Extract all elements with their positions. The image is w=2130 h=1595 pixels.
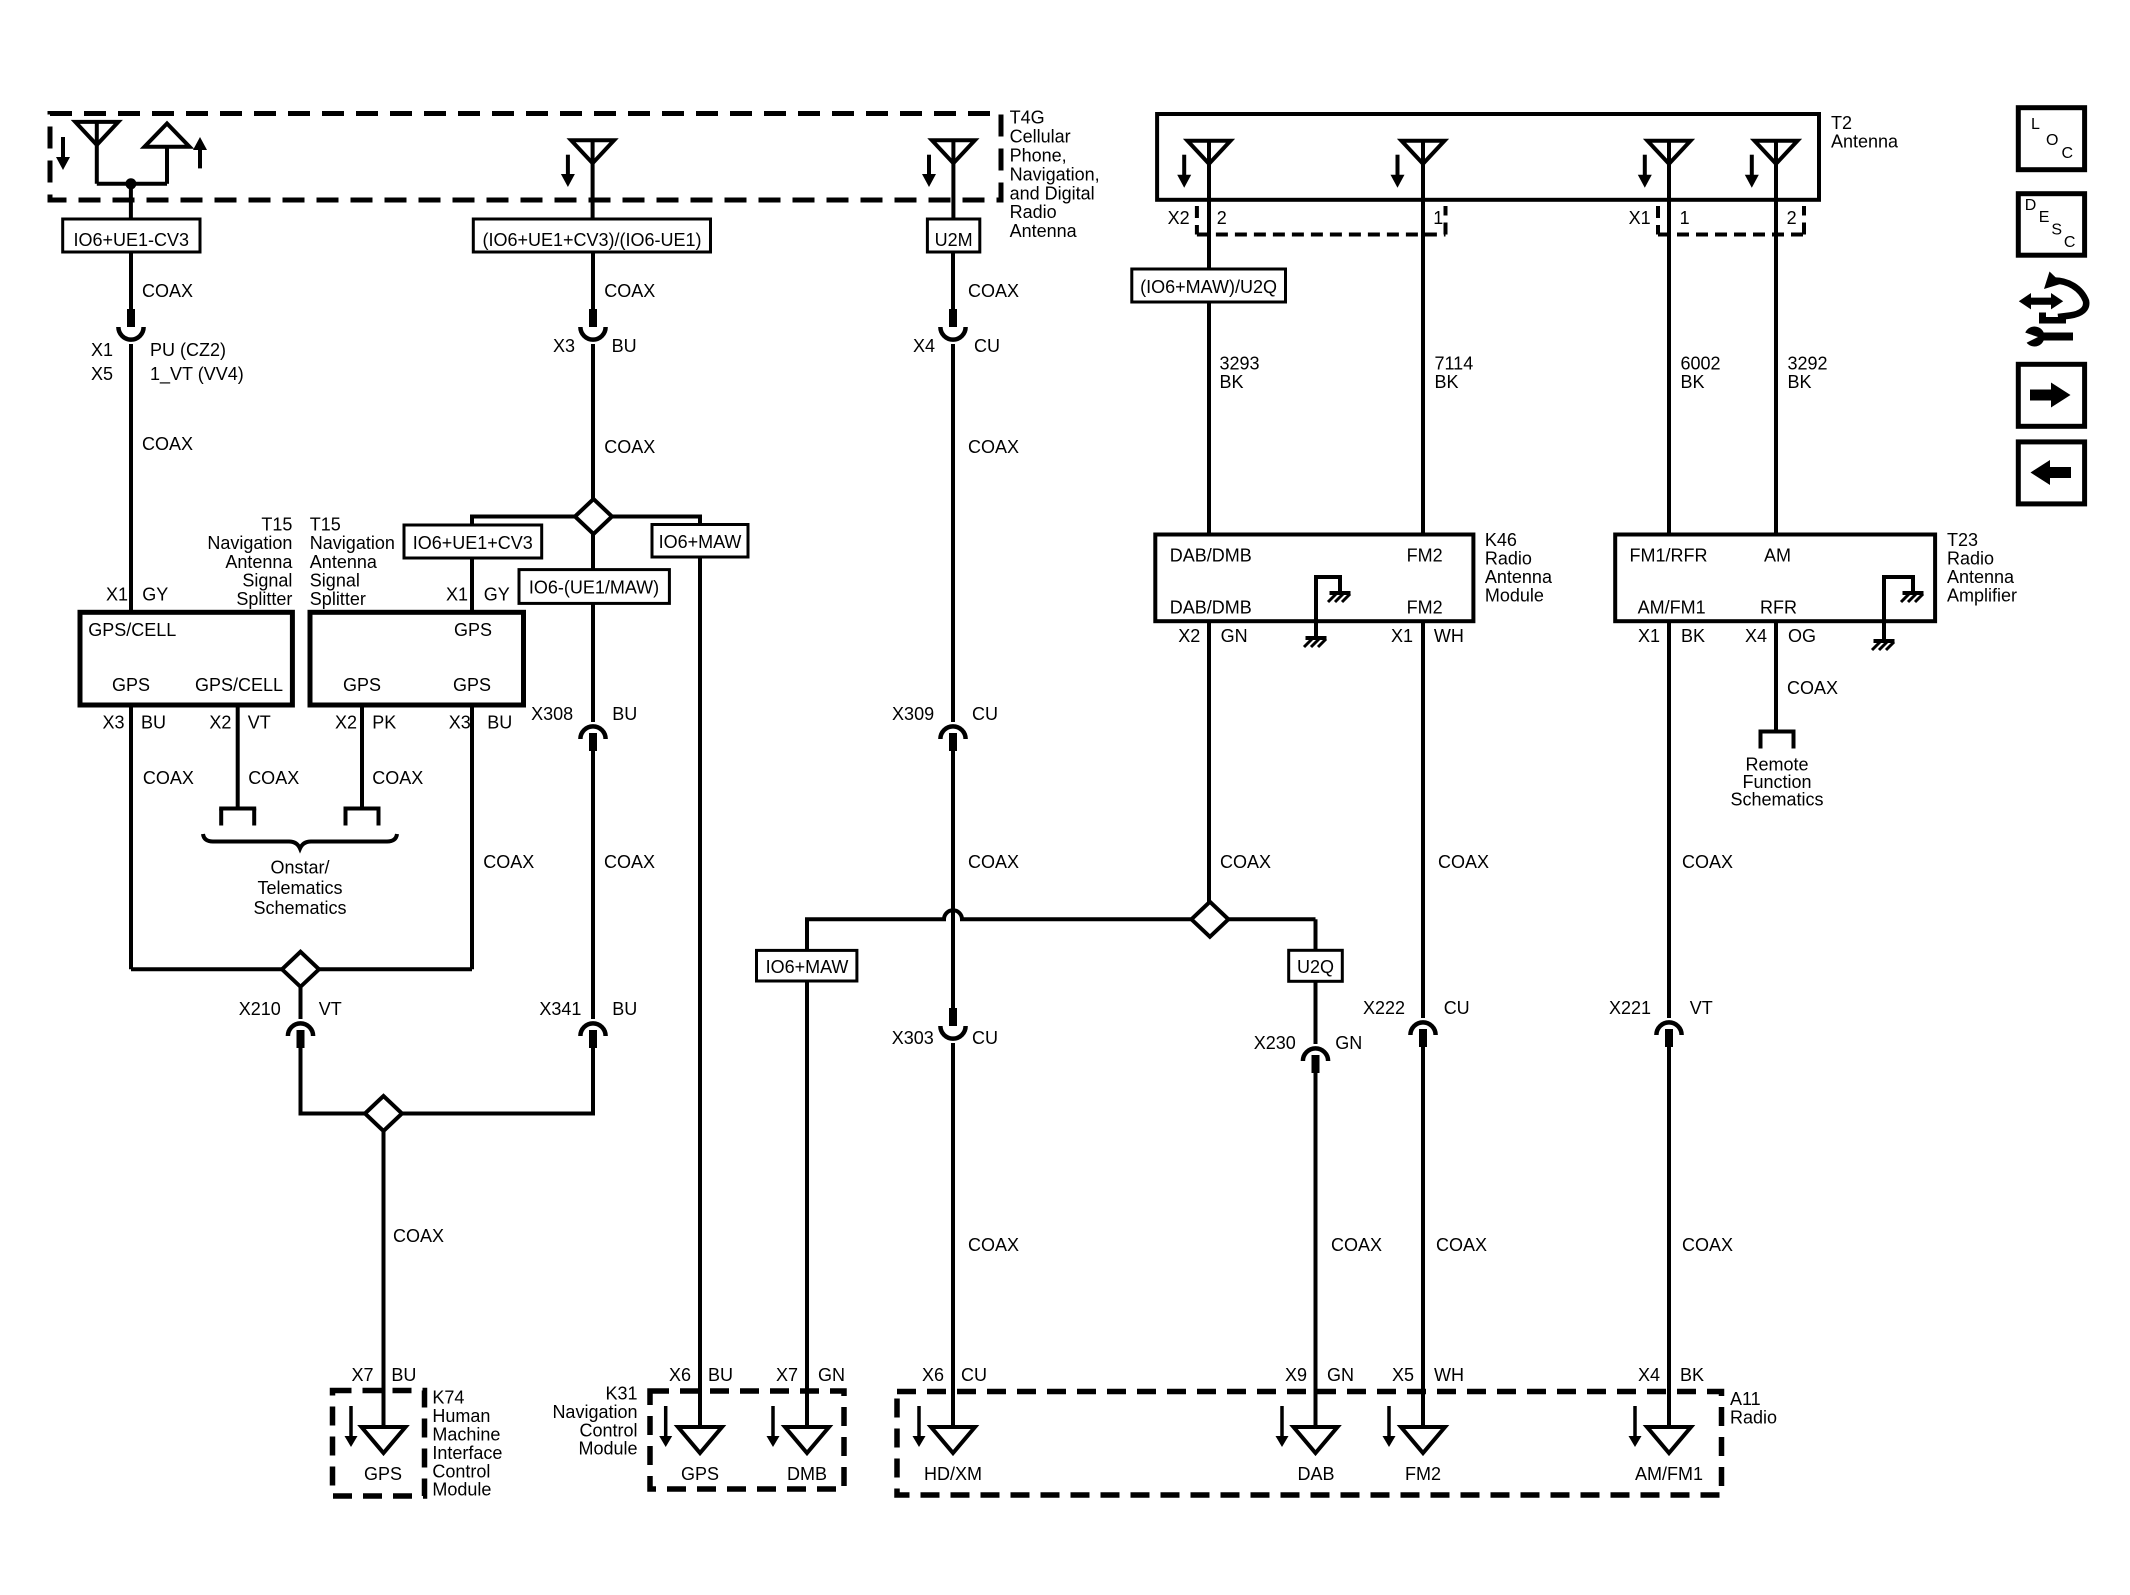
svg-text:Phone,: Phone,: [1010, 146, 1067, 166]
arrow into A11 DAB: [1280, 1406, 1284, 1438]
component box K46 Radio Antenna Module: [1155, 535, 1473, 622]
svg-text:T15: T15: [310, 514, 341, 534]
svg-text:Splitter: Splitter: [236, 589, 292, 609]
svg-text:PK: PK: [372, 713, 396, 733]
svg-text:6002: 6002: [1681, 354, 1721, 374]
svg-text:X2: X2: [1168, 208, 1190, 228]
svg-text:GN: GN: [818, 1365, 845, 1385]
wire from IO6-(UE1/MAW) label to connector X308: [591, 603, 595, 722]
svg-text:DAB: DAB: [1297, 1464, 1334, 1484]
svg-text:FM2: FM2: [1407, 546, 1443, 566]
wire from D4 right down to U2Q label: [1314, 919, 1318, 950]
svg-text:OG: OG: [1788, 626, 1816, 646]
svg-text:COAX: COAX: [604, 852, 655, 872]
svg-text:BU: BU: [391, 1365, 416, 1385]
component box T23 Radio Antenna Amplifier: [1615, 535, 1935, 622]
wire from IO6+MAW lower label down to K31 DMB: [805, 981, 809, 1453]
svg-text:Signal: Signal: [242, 571, 292, 591]
wire COAX from X308 to X341: [591, 751, 595, 1019]
wire COAX from X230 down to A11 DAB: [1314, 1073, 1318, 1453]
wire COAX T23 X1 BK down to connector X221: [1667, 621, 1671, 1018]
arrow receive signal at A1: [61, 137, 65, 160]
harness option label IO6+MAW (lower): [757, 950, 857, 981]
svg-text:AM/FM1: AM/FM1: [1638, 598, 1706, 618]
wire from diamond D1 left to IO6+UE1+CV3 branch: [472, 517, 576, 527]
svg-text:Module: Module: [1485, 586, 1544, 606]
svg-text:C: C: [2064, 234, 2076, 251]
svg-text:X222: X222: [1363, 998, 1405, 1018]
wire COAX from connector X3 to splice diamond: [591, 344, 595, 500]
svg-text:X6: X6: [922, 1365, 944, 1385]
connector boundary dashes X1 of T2: [1658, 206, 1804, 235]
icon button previous arrow: [2018, 442, 2084, 504]
svg-text:BU: BU: [141, 713, 166, 733]
svg-text:2: 2: [1217, 208, 1227, 228]
svg-text:VT: VT: [248, 713, 271, 733]
wire bus from D4 left with crossover hop to DMB branch: [1228, 917, 1315, 921]
svg-text:GPS: GPS: [112, 675, 150, 695]
svg-text:COAX: COAX: [248, 768, 299, 788]
wire COAX from U2M label to connector X4: [951, 252, 955, 309]
svg-text:X7: X7: [776, 1365, 798, 1385]
svg-text:X210: X210: [239, 999, 281, 1019]
svg-text:X3: X3: [449, 713, 471, 733]
svg-text:U2M: U2M: [935, 230, 973, 250]
svg-text:COAX: COAX: [1331, 1235, 1382, 1255]
svg-text:GN: GN: [1327, 1365, 1354, 1385]
wire COAX from connector X1/X5 down to T15 splitter 1: [129, 344, 133, 612]
svg-text:U2Q: U2Q: [1297, 957, 1334, 977]
inline connector X309 CU: [940, 726, 965, 739]
wire joining A1 and A2: [97, 182, 167, 186]
svg-text:CU: CU: [1444, 998, 1470, 1018]
harness option label IO6+MAW (top): [652, 525, 748, 558]
svg-text:Antenna: Antenna: [310, 552, 378, 572]
wire COAX from X222 down to A11 FM2: [1421, 1047, 1425, 1453]
svg-text:T23: T23: [1947, 530, 1978, 550]
svg-text:BK: BK: [1220, 372, 1244, 392]
svg-text:COAX: COAX: [1682, 1235, 1733, 1255]
svg-text:IO6+UE1-CV3: IO6+UE1-CV3: [74, 230, 190, 250]
svg-text:X3: X3: [102, 713, 124, 733]
svg-text:GN: GN: [1221, 626, 1248, 646]
svg-text:COAX: COAX: [143, 768, 194, 788]
inline connector X4 CU: [949, 309, 957, 327]
svg-text:BU: BU: [612, 704, 637, 724]
splitter T15 number 2 box: [310, 612, 524, 705]
svg-text:GY: GY: [142, 585, 168, 605]
svg-text:Antenna: Antenna: [1947, 567, 2015, 587]
svg-text:BK: BK: [1681, 372, 1705, 392]
splice diamond D1: [575, 499, 612, 534]
svg-text:Amplifier: Amplifier: [1947, 586, 2017, 606]
ground symbol inside T23: [1903, 591, 1924, 595]
svg-text:Radio: Radio: [1485, 549, 1532, 569]
arrow into K74 GPS: [349, 1406, 353, 1438]
wire from diamond D1 down to IO6-(UE1/MAW) label: [591, 534, 595, 570]
svg-text:Antenna: Antenna: [225, 552, 293, 572]
arrow receive signal at A3: [566, 155, 570, 177]
inline connector X210 VT: [288, 1023, 313, 1036]
svg-text:K74: K74: [432, 1388, 464, 1408]
svg-text:3292: 3292: [1788, 354, 1828, 374]
wire COAX from X221 down to A11 AM/FM1: [1667, 1047, 1671, 1453]
svg-text:T15: T15: [261, 514, 292, 534]
svg-text:2: 2: [1787, 208, 1797, 228]
wire COAX from connector X4 to connector X309: [951, 344, 955, 722]
svg-text:AM/FM1: AM/FM1: [1635, 1464, 1703, 1484]
svg-text:VT: VT: [319, 999, 342, 1019]
svg-text:FM2: FM2: [1407, 598, 1443, 618]
svg-text:COAX: COAX: [372, 768, 423, 788]
svg-text:COAX: COAX: [142, 434, 193, 454]
inline connector X221 VT: [1656, 1022, 1681, 1035]
svg-text:3293: 3293: [1220, 354, 1260, 374]
svg-text:X2: X2: [335, 713, 357, 733]
svg-text:Splitter: Splitter: [310, 589, 366, 609]
svg-text:X4: X4: [913, 336, 935, 356]
svg-text:COAX: COAX: [604, 281, 655, 301]
svg-text:X1: X1: [1638, 626, 1660, 646]
svg-text:(IO6+MAW)/U2Q: (IO6+MAW)/U2Q: [1140, 277, 1277, 297]
antenna input terminal AM/FM1 of A11: [1647, 1427, 1691, 1453]
icon button DESC: [2018, 194, 2084, 256]
svg-text:COAX: COAX: [1787, 678, 1838, 698]
component box T4G Cellular Phone Navigation and Digital Radio Antenna (dashed): [50, 114, 1001, 201]
arrow into A11 AM/FM1: [1633, 1406, 1637, 1438]
svg-text:AM: AM: [1764, 546, 1791, 566]
wire COAX K46 X1 WH down to connector X222: [1421, 621, 1425, 1018]
junction node of T4G antenna feeds: [125, 178, 136, 189]
wire COAX splitter2 GPS X2 to Onstar stub: [360, 705, 364, 809]
wire joining splitter chains at junction bus: [131, 967, 472, 971]
svg-text:GN: GN: [1335, 1033, 1362, 1053]
svg-text:Schematics: Schematics: [1730, 790, 1823, 810]
svg-text:Radio: Radio: [1730, 1408, 1777, 1428]
svg-text:Onstar/: Onstar/: [270, 858, 329, 878]
svg-text:COAX: COAX: [1220, 852, 1271, 872]
wire from IO6+UE1+CV3 label to splitter 2 X1: [470, 558, 474, 612]
antenna input terminal HD/XM of A11: [931, 1427, 975, 1453]
svg-text:DMB: DMB: [787, 1464, 827, 1484]
splice diamond D2: [365, 1096, 402, 1131]
svg-text:BK: BK: [1788, 372, 1812, 392]
svg-text:PU (CZ2): PU (CZ2): [150, 340, 226, 360]
ground wire inside K46: [1316, 577, 1340, 638]
svg-text:Module: Module: [578, 1439, 637, 1459]
inline connector X3 BU: [589, 309, 597, 327]
component box T2 Antenna: [1157, 114, 1819, 200]
svg-text:Navigation,: Navigation,: [1010, 164, 1100, 184]
wire from T4G junction down to harness label: [129, 184, 133, 219]
svg-text:COAX: COAX: [393, 1226, 444, 1246]
svg-text:Telematics: Telematics: [257, 878, 342, 898]
component box K74 Human Machine Interface Control Module (dashed): [333, 1391, 425, 1497]
svg-text:X4: X4: [1638, 1365, 1660, 1385]
antenna element 4 of T2 (AM): [1755, 141, 1798, 164]
svg-text:1: 1: [1433, 208, 1443, 228]
antenna element 1 of T2 (DAB/DMB): [1188, 141, 1231, 164]
svg-text:GPS: GPS: [454, 620, 492, 640]
svg-text:DAB/DMB: DAB/DMB: [1170, 598, 1252, 618]
arrow into K31 GPS: [664, 1406, 668, 1438]
wire COAX K46 X2 GN down to diamond D4: [1207, 621, 1211, 902]
svg-text:IO6+UE1+CV3: IO6+UE1+CV3: [413, 533, 533, 553]
svg-text:HD/XM: HD/XM: [924, 1464, 982, 1484]
svg-text:VT: VT: [1690, 998, 1713, 1018]
svg-text:GY: GY: [484, 585, 510, 605]
svg-text:Human: Human: [432, 1406, 490, 1426]
harness option label IO6+UE1-CV3: [63, 219, 200, 252]
svg-text:COAX: COAX: [1436, 1235, 1487, 1255]
svg-text:K46: K46: [1485, 530, 1517, 550]
svg-text:X2: X2: [209, 713, 231, 733]
arrow receive at T2 antenna 2: [1396, 155, 1400, 178]
svg-text:X4: X4: [1745, 626, 1767, 646]
splice diamond D3: [282, 952, 319, 987]
brace grouping Onstar/Telematics stubs: [203, 834, 397, 849]
svg-text:COAX: COAX: [968, 852, 1019, 872]
antenna input terminal GPS of K31: [678, 1427, 722, 1453]
harness option label U2M: [927, 219, 979, 252]
svg-text:X303: X303: [892, 1028, 934, 1048]
svg-text:X2: X2: [1178, 626, 1200, 646]
wire COAX from X303 down to A11 HD/XM: [951, 1043, 955, 1453]
svg-text:Navigation: Navigation: [207, 533, 292, 553]
svg-text:IO6+MAW: IO6+MAW: [659, 532, 742, 552]
off-page stub to Remote Function Schematics: [1759, 730, 1796, 734]
svg-text:GPS: GPS: [681, 1464, 719, 1484]
svg-text:O: O: [2046, 132, 2058, 149]
harness option label U2Q: [1289, 950, 1343, 981]
component box A11 Radio (dashed): [897, 1392, 1722, 1496]
inline connector X222 CU: [1410, 1022, 1435, 1035]
antenna element A2 (transmit) of T4G: [145, 124, 190, 147]
antenna input terminal DAB of A11: [1294, 1427, 1338, 1453]
svg-text:X1: X1: [1629, 208, 1651, 228]
ground symbol below T23: [1874, 639, 1895, 643]
svg-text:COAX: COAX: [604, 437, 655, 457]
svg-text:X221: X221: [1609, 998, 1651, 1018]
wire COAX T23 X4 OG to remote function stub: [1774, 621, 1778, 732]
harness option label (IO6+MAW)/U2Q: [1132, 269, 1286, 302]
svg-text:GPS: GPS: [453, 675, 491, 695]
ground symbol below K46: [1306, 636, 1327, 640]
inline connector X341 BU: [580, 1023, 605, 1036]
wire COAX from X309 to X303 crossing bus: [951, 751, 955, 1008]
off-page stub to Onstar/Telematics (left): [219, 807, 256, 811]
svg-text:K31: K31: [605, 1384, 637, 1404]
ground symbol inside K46: [1330, 591, 1351, 595]
inline connector X1 X5 PU (CZ2) 1_VT (VV4): [127, 309, 135, 327]
harness option label (IO6+UE1+CV3)/(IO6-UE1): [473, 219, 710, 252]
svg-text:7114: 7114: [1435, 354, 1474, 374]
svg-text:X5: X5: [1392, 1365, 1414, 1385]
svg-text:IO6+MAW: IO6+MAW: [766, 957, 849, 977]
svg-text:BK: BK: [1680, 1365, 1704, 1385]
arrow receive at T2 antenna 4: [1750, 155, 1754, 178]
svg-text:Control: Control: [579, 1420, 637, 1440]
svg-text:CU: CU: [972, 1028, 998, 1048]
svg-text:RFR: RFR: [1760, 598, 1797, 618]
svg-text:Signal: Signal: [310, 571, 360, 591]
svg-text:FM1/RFR: FM1/RFR: [1630, 546, 1708, 566]
wire from X341 down and left to diamond D2: [384, 1048, 594, 1114]
svg-text:Navigation: Navigation: [310, 533, 395, 553]
svg-text:Radio: Radio: [1010, 202, 1057, 222]
wire from U2Q label to connector X230: [1314, 981, 1318, 1044]
off-page stub to Onstar/Telematics (right): [344, 807, 381, 811]
arrow receive signal at A4: [927, 155, 931, 177]
svg-text:and Digital: and Digital: [1010, 183, 1095, 203]
svg-text:X1: X1: [1391, 626, 1413, 646]
svg-text:Antenna: Antenna: [1010, 221, 1078, 241]
svg-text:BU: BU: [612, 999, 637, 1019]
inline connector X230 GN: [1303, 1048, 1328, 1061]
svg-text:X7: X7: [351, 1365, 373, 1385]
component box K31 Navigation Control Module (dashed): [650, 1391, 844, 1489]
ground wire inside T23: [1884, 577, 1913, 641]
svg-text:X230: X230: [1254, 1033, 1296, 1053]
arrow receive at T2 antenna 3: [1643, 155, 1647, 178]
svg-text:FM2: FM2: [1405, 1464, 1441, 1484]
svg-text:X1: X1: [446, 585, 468, 605]
svg-text:C: C: [2062, 145, 2074, 162]
svg-text:BK: BK: [1681, 626, 1705, 646]
svg-text:X308: X308: [531, 704, 573, 724]
svg-text:BK: BK: [1435, 372, 1459, 392]
svg-text:CU: CU: [974, 336, 1000, 356]
svg-text:X341: X341: [539, 999, 581, 1019]
svg-text:BU: BU: [487, 713, 512, 733]
svg-text:X6: X6: [669, 1365, 691, 1385]
svg-text:D: D: [2025, 197, 2037, 214]
connector boundary dashes X2 of T2: [1197, 206, 1446, 235]
svg-text:T2: T2: [1831, 113, 1852, 133]
svg-text:T4G: T4G: [1010, 108, 1045, 128]
wire from diamond D3 down to connector X210: [299, 987, 303, 1019]
svg-text:S: S: [2051, 222, 2062, 239]
svg-text:Machine: Machine: [432, 1425, 500, 1445]
svg-text:Control: Control: [432, 1461, 490, 1481]
wire 3293 BK from (IO6+MAW)/U2Q label to K46: [1207, 302, 1211, 535]
antenna element A4 of T4G: [932, 140, 975, 163]
wire from X210 down and right to diamond D2: [301, 1048, 366, 1114]
svg-text:Radio: Radio: [1947, 549, 1994, 569]
wire COAX from diamond D2 down to K74 GPS: [382, 1131, 386, 1453]
arrow into K31 DMB: [771, 1406, 775, 1438]
svg-text:COAX: COAX: [968, 437, 1019, 457]
svg-text:Interface: Interface: [432, 1443, 502, 1463]
svg-text:DAB/DMB: DAB/DMB: [1170, 546, 1252, 566]
wire COAX splitter1 GPS X3 down-left chain: [129, 705, 133, 969]
splitter T15 number 1 box: [80, 612, 292, 705]
svg-text:X1: X1: [91, 340, 113, 360]
svg-text:Schematics: Schematics: [253, 898, 346, 918]
svg-text:COAX: COAX: [1438, 852, 1489, 872]
antenna element A3 of T4G: [571, 140, 614, 163]
splice diamond D4: [1191, 902, 1228, 937]
svg-text:A11: A11: [1730, 1389, 1761, 1409]
svg-text:CU: CU: [961, 1365, 987, 1385]
svg-text:COAX: COAX: [142, 281, 193, 301]
svg-text:COAX: COAX: [1682, 852, 1733, 872]
svg-text:X309: X309: [892, 704, 934, 724]
svg-text:X9: X9: [1285, 1365, 1307, 1385]
svg-text:COAX: COAX: [968, 1235, 1019, 1255]
antenna input terminal GPS of K74: [362, 1427, 406, 1453]
svg-text:BU: BU: [612, 336, 637, 356]
wire COAX from (IO6+UE1+CV3)/(IO6-UE1) label to connector X3: [591, 252, 595, 309]
harness option label IO6+UE1+CV3: [404, 525, 542, 558]
svg-text:GPS: GPS: [343, 675, 381, 695]
svg-text:Navigation: Navigation: [552, 1402, 637, 1422]
svg-text:1: 1: [1680, 208, 1690, 228]
antenna element 2 of T2 (FM2): [1402, 141, 1445, 164]
inline connector X303 CU: [949, 1008, 957, 1026]
svg-text:Antenna: Antenna: [1485, 567, 1553, 587]
icon two-way arrow with wrench: [2019, 293, 2063, 309]
svg-text:WH: WH: [1434, 626, 1464, 646]
wire COAX splitter1 GPS/CELL X2 to Onstar stub: [236, 705, 240, 809]
svg-text:X5: X5: [91, 364, 113, 384]
inline connector X308 BU: [580, 726, 605, 739]
svg-text:Module: Module: [432, 1480, 491, 1500]
svg-text:Antenna: Antenna: [1831, 132, 1899, 152]
arrow into A11 FM2: [1387, 1406, 1391, 1438]
svg-text:GPS/CELL: GPS/CELL: [195, 675, 283, 695]
svg-text:CU: CU: [972, 704, 998, 724]
antenna input terminal FM2 of A11: [1401, 1427, 1445, 1453]
svg-text:1_VT (VV4): 1_VT (VV4): [150, 364, 244, 385]
antenna element A1 (receive) of T4G: [75, 122, 118, 145]
wire COAX splitter2 GPS X3 down to junction: [470, 705, 474, 969]
icon button LOC: [2018, 108, 2084, 170]
svg-text:E: E: [2039, 209, 2050, 226]
svg-text:X1: X1: [106, 585, 128, 605]
svg-text:L: L: [2031, 116, 2040, 133]
svg-text:GPS: GPS: [364, 1464, 402, 1484]
antenna element 3 of T2 (FM1): [1648, 141, 1691, 164]
wire COAX from IO6+UE1-CV3 label to connector X1/X5: [129, 252, 133, 309]
arrow transmit signal at A2: [198, 147, 202, 168]
antenna input terminal DMB of K31: [785, 1427, 829, 1453]
harness option label IO6-(UE1/MAW): [519, 570, 669, 604]
svg-text:(IO6+UE1+CV3)/(IO6-UE1): (IO6+UE1+CV3)/(IO6-UE1): [482, 230, 701, 250]
wire from diamond D1 right to IO6+MAW branch: [612, 517, 701, 525]
svg-text:IO6-(UE1/MAW): IO6-(UE1/MAW): [529, 578, 659, 598]
icon button next arrow: [2018, 364, 2084, 426]
svg-text:BU: BU: [708, 1365, 733, 1385]
svg-text:WH: WH: [1434, 1365, 1464, 1385]
svg-text:COAX: COAX: [483, 852, 534, 872]
arrow into A11 HD/XM: [917, 1406, 921, 1438]
svg-text:COAX: COAX: [968, 281, 1019, 301]
svg-text:X3: X3: [553, 336, 575, 356]
wire from IO6+MAW label down to K31 GPS: [698, 557, 702, 1453]
arrow receive at T2 antenna 1: [1182, 155, 1186, 178]
svg-text:Cellular: Cellular: [1010, 127, 1071, 147]
svg-text:GPS/CELL: GPS/CELL: [88, 620, 176, 640]
